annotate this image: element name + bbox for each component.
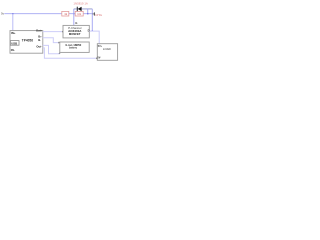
svg-text:B-: B-: [38, 38, 41, 42]
wire B+ to battery: [43, 38, 59, 43]
svg-text:5v: 5v: [1, 11, 4, 15]
svg-text:5V+: 5V+: [98, 46, 103, 48]
wire gate drop: [73, 9, 75, 25]
svg-text:MOSFET: MOSFET: [69, 32, 81, 36]
arrow into battery +: [58, 42, 59, 44]
node junction J1: [12, 13, 13, 14]
svg-text:B+: B+: [38, 34, 42, 38]
battery BT1 box: [60, 42, 89, 52]
svg-text:G: G: [75, 21, 77, 25]
svg-text:USB: USB: [11, 41, 17, 45]
svg-text:D: D: [88, 28, 90, 32]
wire 5v rail: [4, 13, 92, 15]
wire diode branch: [74, 8, 93, 10]
TP4056 module box: [10, 31, 43, 54]
wire Out- to LOAD bottom rail: [43, 48, 97, 58]
node junction diode out: [87, 13, 88, 14]
svg-text:Out-: Out-: [36, 44, 42, 48]
wire Out+ to MOSFET S: [43, 31, 62, 33]
node junction drain: [92, 30, 93, 31]
node junction gate: [73, 13, 74, 14]
USB connector: [10, 41, 19, 46]
diode D1: [78, 7, 82, 11]
svg-text:TP4056: TP4056: [22, 39, 33, 43]
wire diode return: [87, 9, 89, 14]
svg-text:CHG: CHG: [95, 13, 102, 17]
svg-text:1N5819 1A: 1N5819 1A: [73, 2, 88, 6]
svg-text:5V-: 5V-: [98, 58, 102, 60]
svg-text:IN-: IN-: [11, 48, 15, 52]
wire drain vertical: [91, 9, 93, 31]
svg-text:LOAD: LOAD: [103, 47, 111, 51]
LOAD box: [97, 44, 117, 61]
arrow into MOSFET: [62, 31, 63, 33]
LED CHG stub: [92, 13, 94, 15]
resistor R2: [75, 11, 83, 16]
MOSFET U1 box: [63, 25, 89, 38]
svg-text:Out+: Out+: [36, 28, 43, 32]
wire 5v drop to TP4056: [12, 14, 14, 31]
wire B- to battery minus: [43, 45, 60, 53]
arrow into LOAD: [96, 57, 97, 59]
resistor R1: [62, 11, 69, 16]
arrow into battery bottom: [59, 52, 61, 53]
svg-text:battery: battery: [69, 47, 78, 50]
svg-text:IN+: IN+: [11, 31, 16, 35]
wire drain to load: [89, 31, 99, 44]
